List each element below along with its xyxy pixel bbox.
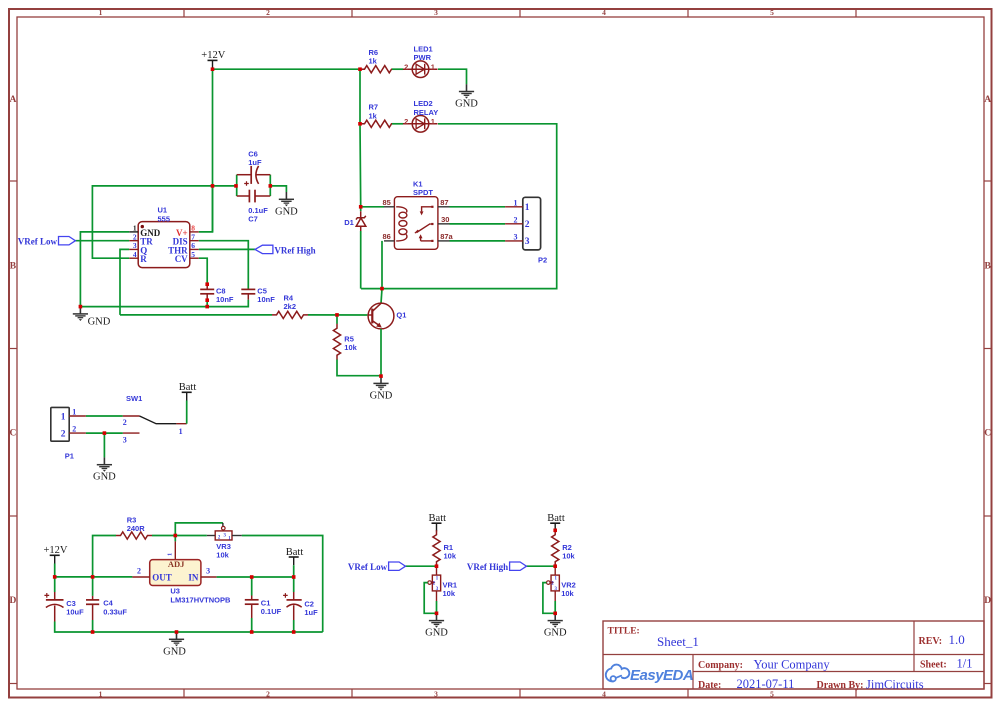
svg-text:1/1: 1/1 <box>957 656 973 670</box>
svg-text:LM317HVTNOPB: LM317HVTNOPB <box>170 595 231 604</box>
wire flag high <box>527 565 556 567</box>
ground VR2 <box>544 613 567 638</box>
resistor R2 <box>552 530 576 566</box>
junction C2 bottom <box>292 630 296 634</box>
svg-text:2: 2 <box>72 425 76 434</box>
ground LED1 <box>455 84 478 109</box>
wire pin2 TR to flag <box>75 240 129 242</box>
svg-text:3: 3 <box>133 241 137 250</box>
junction C8/GND rail <box>205 305 209 309</box>
svg-text:5: 5 <box>770 690 774 699</box>
op-amp U1 555 <box>129 206 199 268</box>
svg-text:4: 4 <box>602 8 606 17</box>
svg-text:ADJ: ADJ <box>168 559 185 569</box>
svg-text:10uF: 10uF <box>66 608 84 617</box>
junction C8 bottom <box>205 298 209 302</box>
switch SW1 <box>123 394 187 444</box>
ground P1 <box>93 457 116 482</box>
svg-text:1uF: 1uF <box>304 608 318 617</box>
svg-text:10k: 10k <box>562 552 575 561</box>
connector P1 <box>51 407 86 460</box>
net flag VRef High <box>255 245 316 255</box>
potentiometer VR3 <box>207 526 242 559</box>
resistor R5 <box>333 324 357 360</box>
EasyEDA logo <box>606 665 693 685</box>
wire C4 to rail <box>92 620 94 632</box>
svg-text:Date:: Date: <box>698 680 721 691</box>
svg-text:3: 3 <box>224 533 227 538</box>
svg-text:2: 2 <box>137 567 141 576</box>
svg-text:VRef High: VRef High <box>467 562 508 572</box>
svg-text:4: 4 <box>133 250 137 259</box>
power flag Batt low <box>429 513 447 531</box>
capacitor C8 <box>200 287 234 305</box>
svg-text:1: 1 <box>179 427 183 436</box>
svg-text:1uF: 1uF <box>248 158 262 167</box>
wire pin7 DIS to C5 <box>199 241 249 290</box>
wire VR2 bottom <box>554 601 556 613</box>
svg-text:1: 1 <box>99 8 103 17</box>
wire pin1 GND left <box>80 232 129 307</box>
resistor R3 <box>116 515 152 539</box>
wire GND rail <box>80 300 248 307</box>
svg-text:2: 2 <box>525 220 530 230</box>
svg-text:1: 1 <box>436 577 439 582</box>
svg-text:JimCircuits: JimCircuits <box>866 678 924 692</box>
wire R5 top lead <box>336 315 338 324</box>
wire base net <box>120 314 272 316</box>
capacitor C6 <box>237 149 271 196</box>
junction R5 top <box>335 313 339 317</box>
ground Q1 <box>370 376 393 401</box>
svg-text:1.0: 1.0 <box>949 632 965 647</box>
junction VR1 GND <box>435 612 439 616</box>
svg-text:86: 86 <box>382 232 390 241</box>
svg-text:Batt: Batt <box>179 382 197 393</box>
wire C1 top lead <box>251 596 253 600</box>
wire +12V branch down to relay <box>359 124 362 212</box>
svg-text:0.33uF: 0.33uF <box>103 607 127 616</box>
svg-text:SPDT: SPDT <box>413 188 433 197</box>
svg-text:2: 2 <box>514 215 518 224</box>
net flag VRef Low <box>18 237 76 247</box>
svg-text:GND: GND <box>455 99 478 110</box>
junction VR2 GND <box>553 612 557 616</box>
junction Batt R2 <box>553 529 557 533</box>
wire relay87 to P2 pin1 <box>450 206 506 208</box>
svg-text:Your Company: Your Company <box>754 658 831 672</box>
wire to GND P1 <box>103 433 105 457</box>
wire Q1 emitter to GND <box>380 329 382 376</box>
junction +12V/V+ node <box>211 184 215 188</box>
svg-text:B: B <box>10 261 17 271</box>
net flag VRef Low <box>348 562 406 572</box>
wire flag low <box>406 565 437 567</box>
junction C8 top <box>205 282 209 286</box>
svg-text:2: 2 <box>61 429 66 439</box>
wire ADJ pin <box>174 536 176 542</box>
svg-text:VRef High: VRef High <box>274 246 315 256</box>
title label <box>608 627 640 637</box>
LED LED1 <box>403 44 438 77</box>
svg-text:Drawn By:: Drawn By: <box>817 680 864 691</box>
wire C1 top <box>251 577 253 596</box>
junction C1 top <box>250 575 254 579</box>
wire LED2 loop right/down/left <box>361 124 557 289</box>
wire VR2 wiper loop <box>543 583 555 614</box>
wire ADJ node to VR3 <box>175 535 207 537</box>
wire C5 bottom lead <box>247 294 249 300</box>
wire pin5 CV to C8 <box>199 258 207 284</box>
svg-text:1k: 1k <box>369 111 378 120</box>
capacitor C1 <box>245 599 282 617</box>
capacitor C5 <box>241 287 275 305</box>
wire P1 pin2 <box>86 432 123 434</box>
wire C2 top lead <box>293 592 295 600</box>
wire relay87a to P2 pin3 <box>450 240 506 242</box>
connector P2 <box>505 197 547 264</box>
net flag VRef High <box>467 562 527 572</box>
svg-text:REV:: REV: <box>919 636 943 647</box>
wire +12V to OUT rail <box>54 564 56 577</box>
svg-text:C7: C7 <box>248 215 258 224</box>
svg-text:D1: D1 <box>344 218 354 227</box>
junction GND rail <box>175 630 179 634</box>
junction ADJ node <box>174 534 178 538</box>
svg-text:GND: GND <box>275 206 298 217</box>
wire R3 to ADJ node <box>152 535 175 537</box>
svg-text:GND: GND <box>93 472 116 483</box>
svg-text:87a: 87a <box>440 232 453 241</box>
wire C3 top lead <box>54 592 56 600</box>
svg-text:3: 3 <box>434 690 438 699</box>
svg-text:RELAY: RELAY <box>414 108 439 117</box>
wire +12V to R6 node <box>213 68 361 70</box>
svg-text:Sheet:: Sheet: <box>920 659 947 670</box>
svg-text:8: 8 <box>191 224 195 233</box>
svg-text:Batt: Batt <box>286 547 304 558</box>
date row <box>698 677 924 692</box>
svg-text:10k: 10k <box>443 589 456 598</box>
svg-text:10nF: 10nF <box>216 295 234 304</box>
sheet name Sheet_1 <box>657 634 699 649</box>
svg-text:2: 2 <box>133 232 137 241</box>
wire ADJ node up-over to VR3 wiper <box>175 523 223 536</box>
svg-text:7: 7 <box>191 232 195 241</box>
svg-text:3: 3 <box>206 567 210 576</box>
svg-text:1k: 1k <box>369 57 378 66</box>
svg-text:2: 2 <box>551 581 554 586</box>
wire VR1 bottom <box>436 601 438 613</box>
relay K1 <box>382 179 453 249</box>
svg-text:GND: GND <box>88 317 111 328</box>
wire OUT rail <box>55 576 133 578</box>
svg-text:R: R <box>140 254 147 264</box>
title block grid <box>603 621 984 689</box>
wire R3 riser <box>93 536 116 577</box>
regulator U3 LM317 <box>132 559 231 604</box>
svg-text:1: 1 <box>99 690 103 699</box>
junction C4 bottom <box>91 630 95 634</box>
potentiometer VR1 <box>428 566 457 601</box>
junction R1/VR1 <box>435 564 439 568</box>
svg-text:0.1UF: 0.1UF <box>261 607 282 616</box>
svg-text:85: 85 <box>382 198 390 207</box>
junction relay pin85/D1 <box>359 205 363 209</box>
LED LED2 <box>403 99 438 132</box>
wire C3 to rail <box>55 622 323 633</box>
resistor R4 <box>272 293 308 318</box>
wire to relay pin85 <box>361 206 384 208</box>
svg-text:D: D <box>9 596 16 606</box>
svg-text:TITLE:: TITLE: <box>608 627 640 637</box>
wire pin4 R up <box>92 186 236 258</box>
rev label <box>919 632 965 647</box>
svg-text:2: 2 <box>266 690 270 699</box>
wire caps to GND <box>270 186 286 192</box>
wire D1 to bottom loop <box>360 231 362 289</box>
svg-text:GND: GND <box>370 390 393 401</box>
power flag +12V regulator <box>43 545 67 563</box>
wire R7 left lead <box>360 123 364 125</box>
svg-text:Q1: Q1 <box>396 311 406 320</box>
svg-text:10k: 10k <box>216 551 229 560</box>
svg-text:VRef Low: VRef Low <box>348 562 388 572</box>
svg-text:5: 5 <box>191 250 195 259</box>
wire C1 to rail <box>251 618 253 632</box>
svg-text:4: 4 <box>602 690 606 699</box>
junction +12V <box>211 67 215 71</box>
svg-text:10k: 10k <box>444 552 457 561</box>
wire C1 bottom lead <box>251 604 253 618</box>
wire pin6 THR to flag <box>199 248 255 250</box>
svg-text:CV: CV <box>175 254 188 264</box>
ground VR1 <box>425 613 448 638</box>
svg-text:D: D <box>984 596 991 606</box>
power flag Batt high <box>547 513 565 531</box>
potentiometer VR2 <box>547 566 576 601</box>
svg-text:2: 2 <box>266 8 270 17</box>
svg-text:3: 3 <box>434 8 438 17</box>
wire C3 top <box>54 577 56 592</box>
svg-text:1: 1 <box>167 553 174 556</box>
company row <box>698 658 830 672</box>
wire C8 to GND rail <box>206 300 208 306</box>
wire pin3 Q down <box>120 249 129 315</box>
wire SW1 to Batt <box>186 401 188 424</box>
wire V+ node to caps <box>235 185 238 187</box>
svg-text:10k: 10k <box>344 343 357 352</box>
svg-text:Company:: Company: <box>698 660 743 671</box>
svg-text:A: A <box>984 95 991 105</box>
junction C4/R3 top <box>91 575 95 579</box>
svg-text:A: A <box>9 95 16 105</box>
sheet number row <box>920 656 972 670</box>
svg-text:3: 3 <box>123 435 127 444</box>
wire VR3 to GND drop <box>242 536 323 633</box>
wire +12V rail down to pin8 net <box>212 69 214 232</box>
junction C2/Batt <box>292 575 296 579</box>
wire R6 left lead <box>360 68 364 70</box>
capacitor C3 <box>44 593 84 617</box>
resistor R6 <box>360 48 396 73</box>
wire node to Q1 collector <box>381 289 382 304</box>
wire wiper drop <box>222 523 224 526</box>
svg-text:5: 5 <box>770 8 774 17</box>
junction Q1 collector node <box>380 287 384 291</box>
svg-text:PWR: PWR <box>414 53 432 62</box>
capacitor C7 <box>237 190 271 224</box>
power flag +12V <box>201 50 225 68</box>
junction P1 pin2 GND <box>103 431 107 435</box>
svg-text:1: 1 <box>555 577 558 582</box>
capacitor C2 <box>283 593 318 617</box>
ground regulator <box>163 632 186 658</box>
wire relay86 down to node <box>381 241 383 289</box>
svg-text:Sheet_1: Sheet_1 <box>657 634 699 649</box>
junction caps right <box>269 184 273 188</box>
svg-text:2: 2 <box>123 418 127 427</box>
svg-text:P1: P1 <box>65 452 74 461</box>
wire R5 bottom to emitter node <box>337 360 381 376</box>
svg-text:30: 30 <box>441 215 449 224</box>
wire IN net <box>217 576 294 578</box>
diode D1 <box>344 211 366 231</box>
svg-text:+12V: +12V <box>43 545 67 556</box>
svg-text:B: B <box>985 261 992 271</box>
svg-text:2: 2 <box>433 581 436 586</box>
wire R7 to LED2 <box>392 123 403 125</box>
wire branch down to R7 <box>359 69 361 124</box>
svg-text:GND: GND <box>425 628 448 639</box>
svg-text:OUT: OUT <box>152 573 172 583</box>
svg-text:GND: GND <box>544 628 567 639</box>
ground U1 <box>73 307 111 328</box>
svg-text:1: 1 <box>431 62 435 71</box>
svg-text:EasyEDA: EasyEDA <box>630 667 693 684</box>
junction caps left <box>234 184 238 188</box>
svg-text:1: 1 <box>72 408 76 417</box>
svg-text:555: 555 <box>158 214 171 223</box>
svg-text:2021-07-11: 2021-07-11 <box>737 677 795 691</box>
wire R6 to LED1 <box>392 68 403 70</box>
wire VR1 wiper loop <box>424 583 436 614</box>
wire C8 top lead <box>206 284 208 289</box>
wire P1 pin1 to SW1 <box>86 415 123 417</box>
svg-text:VRef Low: VRef Low <box>18 237 58 247</box>
resistor R7 <box>360 103 396 128</box>
svg-text:1: 1 <box>133 224 137 233</box>
svg-text:C: C <box>9 429 16 439</box>
junction Q1 emitter/R5/GND <box>379 374 383 378</box>
svg-text:1: 1 <box>514 198 518 207</box>
resistor R1 <box>433 530 457 566</box>
svg-text:C: C <box>984 429 991 439</box>
wire C4 bottom lead <box>92 604 94 620</box>
junction C1 bottom <box>250 630 254 634</box>
svg-text:3: 3 <box>525 237 530 247</box>
svg-text:P2: P2 <box>538 255 547 264</box>
svg-text:6: 6 <box>191 241 195 250</box>
svg-text:Batt: Batt <box>429 513 447 524</box>
transistor Q1 <box>367 303 406 329</box>
wire C2 to rail <box>293 620 295 632</box>
power flag Batt SW1 <box>179 382 197 400</box>
ground C6/C7 <box>275 192 298 217</box>
svg-text:Batt: Batt <box>547 513 565 524</box>
junction R6/R7 branch <box>358 67 362 71</box>
svg-text:10nF: 10nF <box>257 295 275 304</box>
junction GND net <box>79 305 83 309</box>
svg-text:IN: IN <box>188 573 199 583</box>
wire relay30 to P2 pin2 <box>450 223 506 225</box>
wire R4 to Q1 base <box>308 314 367 316</box>
capacitor C4 <box>86 599 127 617</box>
junction C3 top <box>53 575 57 579</box>
power flag Batt regulator <box>286 547 304 565</box>
svg-text:87: 87 <box>440 198 448 207</box>
wire C2 bottom lead <box>293 605 295 620</box>
svg-text:2: 2 <box>404 62 408 71</box>
wire C4 top lead <box>92 596 94 600</box>
wire C2 top <box>293 577 295 592</box>
svg-text:1: 1 <box>525 203 530 213</box>
wire LED1 to GND <box>438 69 467 84</box>
svg-text:10k: 10k <box>561 589 574 598</box>
wire Batt to IN rail <box>293 565 295 577</box>
svg-text:1: 1 <box>431 117 435 126</box>
ADJ pin lead <box>167 541 176 559</box>
junction R7 branch <box>358 122 362 126</box>
junction R2/VR2 <box>553 564 557 568</box>
svg-text:+12V: +12V <box>201 50 225 61</box>
wire pin8 V+ up <box>199 186 213 232</box>
svg-text:3: 3 <box>514 232 518 241</box>
svg-text:2: 2 <box>404 117 408 126</box>
wire C4 top <box>92 577 94 596</box>
svg-text:SW1: SW1 <box>126 394 142 403</box>
svg-text:240R: 240R <box>127 524 146 533</box>
svg-text:2k2: 2k2 <box>284 302 297 311</box>
wire C8 bottom lead <box>206 294 208 300</box>
svg-text:GND: GND <box>163 647 186 658</box>
wire C3 bottom lead <box>54 606 56 622</box>
svg-text:1: 1 <box>61 412 66 422</box>
